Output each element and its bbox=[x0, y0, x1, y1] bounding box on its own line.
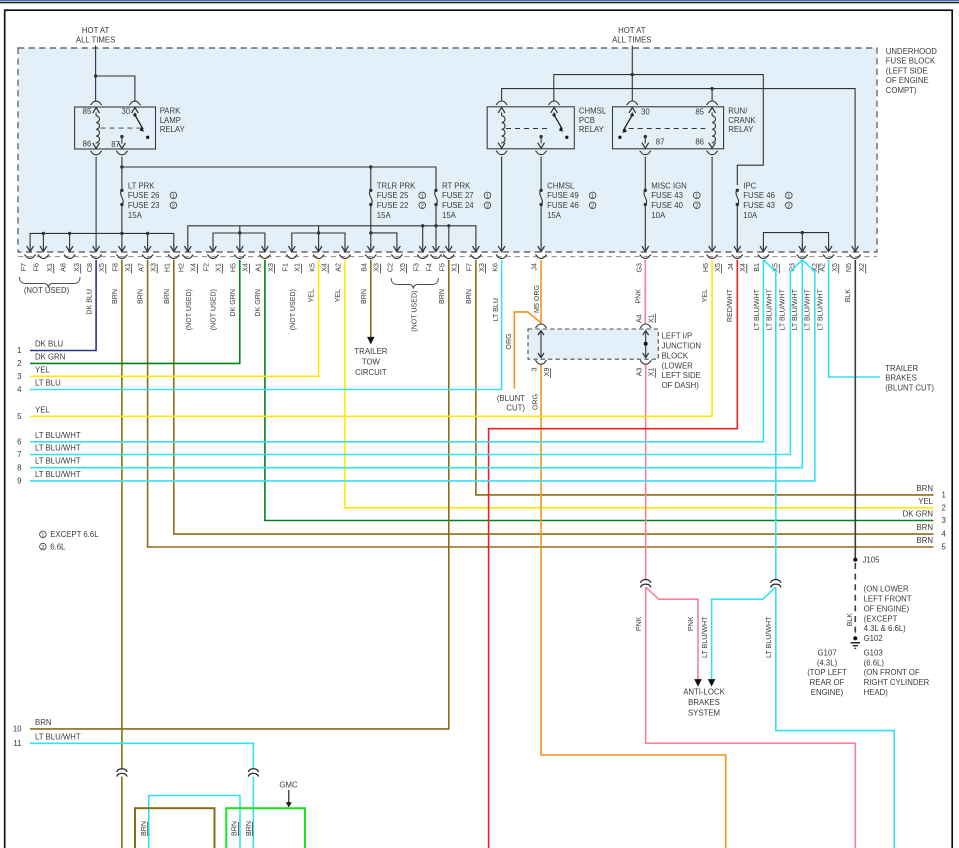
svg-text:1: 1 bbox=[787, 194, 790, 200]
wire: park relay 86 to pin C8 bbox=[95, 157, 97, 246]
svg-text:HOT AT: HOT AT bbox=[82, 26, 110, 35]
wire BRN A7 to circuit 5 right bbox=[148, 260, 934, 547]
fuse block output pin sockets bbox=[24, 255, 860, 259]
svg-text:YEL: YEL bbox=[701, 289, 709, 302]
svg-text:TRAILER: TRAILER bbox=[885, 364, 918, 373]
svg-text:X4: X4 bbox=[739, 263, 747, 272]
svg-text:1: 1 bbox=[41, 533, 44, 539]
svg-text:BLK: BLK bbox=[844, 289, 852, 303]
svg-text:LEFT I/P: LEFT I/P bbox=[662, 332, 693, 341]
svg-text:PNK: PNK bbox=[687, 616, 695, 631]
wire: left hot feed down to park lamp relay bbox=[95, 46, 97, 102]
underhood fuse block boundary bbox=[18, 48, 877, 252]
svg-text:DK GRN: DK GRN bbox=[254, 289, 262, 317]
fuse IPC (FUSE 46/FUSE 43 10A) bbox=[736, 181, 793, 220]
fuse CHMSL (FUSE 49/FUSE 46 15A) bbox=[539, 181, 596, 220]
svg-text:DK BLU: DK BLU bbox=[35, 340, 64, 349]
svg-text:N5: N5 bbox=[845, 263, 853, 272]
svg-text:5: 5 bbox=[942, 543, 947, 552]
label ANTI-LOCK BRAKES SYSTEM bbox=[683, 688, 725, 718]
svg-text:F7: F7 bbox=[20, 263, 28, 271]
note (ON LOWER LEFT FRONT OF ENGINE)(EXCEPT 4.3L & 6.6L) G102 bbox=[864, 585, 912, 644]
svg-text:X1: X1 bbox=[451, 263, 459, 272]
svg-text:4: 4 bbox=[17, 385, 22, 394]
svg-text:HOT AT: HOT AT bbox=[618, 26, 646, 35]
svg-text:8: 8 bbox=[17, 463, 21, 472]
junction dot bus 1 bbox=[146, 232, 149, 235]
svg-text:X4: X4 bbox=[321, 263, 329, 272]
wire YEL A2 to circuit 2 right bbox=[345, 260, 934, 508]
svg-text:2: 2 bbox=[41, 545, 44, 551]
svg-text:YEL: YEL bbox=[918, 497, 933, 506]
svg-text:2: 2 bbox=[172, 204, 175, 210]
wire: right hot feed down to run/crank relay pin 30 bbox=[631, 46, 633, 102]
wire DK BLU C8 to circuit 1 bbox=[30, 260, 96, 351]
svg-text:B1: B1 bbox=[753, 263, 761, 272]
svg-text:BRN: BRN bbox=[465, 289, 473, 304]
svg-text:86: 86 bbox=[695, 138, 704, 147]
svg-text:FUSE 23: FUSE 23 bbox=[128, 201, 160, 210]
svg-text:RT PRK: RT PRK bbox=[442, 181, 471, 190]
wire: minibus D drop P3 bbox=[801, 233, 803, 246]
svg-text:2: 2 bbox=[421, 204, 424, 210]
svg-text:BRAKES: BRAKES bbox=[688, 698, 720, 707]
svg-text:(TOP LEFT: (TOP LEFT bbox=[807, 668, 847, 677]
svg-text:FUSE 49: FUSE 49 bbox=[547, 191, 579, 200]
svg-text:BRN: BRN bbox=[360, 289, 368, 304]
label PARK LAMP RELAY bbox=[160, 107, 186, 135]
svg-text:A8: A8 bbox=[59, 263, 67, 272]
svg-text:(LEFT SIDE: (LEFT SIDE bbox=[886, 66, 928, 75]
wire BRN F7 to circuit 1 right bbox=[476, 260, 934, 495]
svg-text:A7: A7 bbox=[137, 263, 145, 272]
svg-text:BRN: BRN bbox=[438, 289, 446, 304]
svg-text:2: 2 bbox=[787, 204, 790, 210]
relay RUN/CRANK RELAY bbox=[613, 101, 724, 155]
junction dot in junction block bbox=[644, 342, 648, 346]
svg-text:RUN/: RUN/ bbox=[728, 107, 748, 116]
wire BLK N5 to J105 bbox=[854, 260, 856, 560]
svg-text:BRN: BRN bbox=[111, 289, 119, 304]
label (BLUNT CUT) bbox=[497, 394, 526, 412]
junction dot bus B to run/crank coil bbox=[710, 87, 713, 90]
svg-text:CHMSL: CHMSL bbox=[579, 107, 607, 116]
wire LT BLU K6 to circuit 4 left bbox=[30, 260, 502, 390]
svg-text:BRN: BRN bbox=[245, 821, 253, 836]
circuit numbers and labels right margin bbox=[903, 484, 947, 552]
junction dot bus 2 at F5 bbox=[447, 224, 450, 227]
junction dot bus 1 bbox=[42, 232, 45, 235]
svg-text:K6: K6 bbox=[491, 263, 499, 272]
svg-text:87: 87 bbox=[111, 140, 120, 149]
svg-text:X5: X5 bbox=[399, 263, 407, 272]
junction dot bus 2 at RT PRK bbox=[434, 224, 437, 227]
svg-text:F6: F6 bbox=[32, 263, 40, 271]
svg-text:J105: J105 bbox=[863, 556, 881, 565]
wire: feeder to TRLR PRK / RT PRK fuses bbox=[122, 167, 436, 190]
wire LT BLU/WHT B1 to circuit 6 left bbox=[30, 260, 763, 442]
svg-text:RIGHT CYLINDER: RIGHT CYLINDER bbox=[864, 678, 930, 687]
bus 2 (RT PRK distribution) bbox=[188, 226, 476, 246]
junction dot bus 1 bbox=[68, 232, 71, 235]
svg-text:X1: X1 bbox=[294, 263, 302, 272]
svg-text:C2: C2 bbox=[387, 263, 395, 272]
svg-text:BRAKES: BRAKES bbox=[885, 374, 917, 383]
svg-text:LT BLU/WHT: LT BLU/WHT bbox=[765, 616, 773, 658]
wire: park relay 87 to fuse feeder bbox=[121, 157, 123, 191]
svg-text:(ON FRONT OF: (ON FRONT OF bbox=[864, 668, 920, 677]
wire: TRLR PRK fuse drop bbox=[370, 167, 372, 190]
svg-text:X4: X4 bbox=[242, 263, 250, 272]
wire ORG below junction block to bottom right bbox=[541, 364, 726, 848]
svg-text:LEFT SIDE: LEFT SIDE bbox=[662, 371, 701, 380]
svg-text:X3: X3 bbox=[373, 263, 381, 272]
svg-text:DK GRN: DK GRN bbox=[903, 510, 933, 519]
svg-text:PARK: PARK bbox=[160, 107, 181, 116]
junction dot bus 2 at F3 bbox=[421, 224, 424, 227]
svg-text:YEL: YEL bbox=[334, 289, 342, 302]
svg-text:X5: X5 bbox=[98, 263, 106, 272]
svg-text:F3: F3 bbox=[412, 263, 420, 271]
svg-text:OF ENGINE): OF ENGINE) bbox=[864, 604, 910, 613]
wire LT BLU/WHT continues to bottom right bbox=[776, 587, 894, 848]
svg-text:MISC IGN: MISC IGN bbox=[651, 181, 687, 190]
svg-text:30: 30 bbox=[641, 108, 650, 117]
svg-text:BRN: BRN bbox=[917, 536, 933, 545]
svg-text:15A: 15A bbox=[128, 211, 143, 220]
svg-text:PCB: PCB bbox=[579, 116, 595, 125]
svg-text:30: 30 bbox=[122, 107, 131, 116]
svg-text:M5 ORG: M5 ORG bbox=[533, 285, 541, 313]
svg-text:BLOCK: BLOCK bbox=[662, 351, 689, 360]
svg-text:(NOT USED): (NOT USED) bbox=[185, 289, 193, 330]
wire: IPC fuse output to pin J4 (red) bbox=[736, 205, 738, 247]
label RUN/CRANK RELAY bbox=[728, 107, 756, 135]
svg-text:1: 1 bbox=[591, 194, 594, 200]
svg-text:X1: X1 bbox=[124, 263, 132, 272]
wire: RT PRK fuse output to bus 2 bbox=[435, 205, 437, 247]
svg-text:15A: 15A bbox=[442, 211, 457, 220]
svg-text:DK GRN: DK GRN bbox=[229, 289, 237, 317]
junction dot right hot feed bbox=[631, 73, 634, 76]
svg-text:(ON LOWER: (ON LOWER bbox=[864, 585, 909, 594]
wire BRN F5 to circuit 10 left bbox=[30, 260, 449, 729]
minibus D (B1/P3/A2) bbox=[763, 233, 828, 246]
wire: MISC IGN fuse output to pin G3 bbox=[644, 157, 646, 191]
svg-text:F2: F2 bbox=[202, 263, 210, 271]
svg-text:LT BLU/WHT: LT BLU/WHT bbox=[35, 431, 81, 440]
svg-text:OF ENGINE: OF ENGINE bbox=[886, 76, 929, 85]
fuse block output pin arrows bbox=[27, 245, 859, 252]
wire LT BLU/WHT P3 to circuit 8 left bbox=[30, 260, 802, 468]
svg-text:85: 85 bbox=[83, 107, 92, 116]
svg-text:X3: X3 bbox=[150, 263, 158, 272]
svg-text:BLK: BLK bbox=[846, 613, 854, 627]
svg-text:GMC: GMC bbox=[279, 780, 298, 789]
underhood fuse block caption bbox=[886, 47, 937, 95]
minibus A bbox=[213, 233, 265, 246]
wire: hot feed branch to park relay pin 30 bbox=[96, 76, 135, 101]
svg-text:F4: F4 bbox=[426, 263, 434, 271]
svg-text:J4: J4 bbox=[530, 263, 538, 271]
svg-text:(BLUNT CUT): (BLUNT CUT) bbox=[885, 383, 934, 392]
svg-text:86: 86 bbox=[83, 139, 92, 148]
svg-text:X2: X2 bbox=[858, 263, 866, 272]
svg-text:K5: K5 bbox=[308, 263, 316, 272]
svg-text:BRN: BRN bbox=[231, 821, 239, 836]
svg-text:G3: G3 bbox=[635, 263, 643, 273]
svg-text:X1: X1 bbox=[648, 367, 656, 376]
wire: bus 2 drop F3 bbox=[422, 226, 424, 246]
svg-text:(EXCEPT: (EXCEPT bbox=[864, 614, 898, 623]
connector box GMC (green) bbox=[226, 808, 305, 848]
label LEFT I/P JUNCTION BLOCK (LOWER LEFT SIDE OF DASH) bbox=[662, 332, 701, 391]
svg-text:YEL: YEL bbox=[35, 405, 50, 414]
arrow PNK to ABS bbox=[694, 679, 702, 687]
legend 1 EXCEPT 6.6L / 2 6.6L bbox=[40, 530, 100, 551]
svg-text:2: 2 bbox=[486, 204, 489, 210]
wire BRN F8 down to lower connector bbox=[121, 260, 123, 770]
wire: bus 2 drop to minibus A bbox=[239, 226, 241, 233]
svg-text:F8: F8 bbox=[112, 263, 120, 271]
wire YEL K5 to circuit 3 left bbox=[30, 260, 319, 377]
svg-text:87: 87 bbox=[656, 138, 665, 147]
svg-text:2: 2 bbox=[17, 359, 21, 368]
wire: TRLR PRK fuse output bbox=[370, 205, 372, 247]
note G103 (6.6L)(ON FRONT OF RIGHT CYLINDER HEAD) bbox=[864, 648, 930, 697]
arrow to trailer tow circuit bbox=[367, 337, 375, 345]
wire: CHMSL fuse output to pin J4 bbox=[540, 157, 542, 191]
svg-text:PNK: PNK bbox=[634, 289, 642, 304]
svg-text:(6.6L): (6.6L) bbox=[864, 658, 885, 667]
svg-text:CIRCUIT: CIRCUIT bbox=[355, 368, 387, 377]
svg-text:6: 6 bbox=[17, 437, 21, 446]
svg-text:9: 9 bbox=[17, 477, 21, 486]
wire: bus 2 drop F5 bbox=[448, 226, 450, 246]
note G107 (4.3L)(TOP LEFT REAR OF ENGINE) bbox=[807, 648, 847, 697]
wire: bus 1 drop bbox=[69, 233, 71, 246]
svg-text:G103: G103 bbox=[864, 648, 883, 657]
wire YEL H5 to circuit 5 left bbox=[30, 260, 712, 417]
wire BRN B4 to trailer tow circuit bbox=[370, 260, 372, 337]
svg-text:10A: 10A bbox=[743, 211, 758, 220]
svg-text:COMPT): COMPT) bbox=[886, 86, 917, 95]
wire LT BLU/WHT branch to anti-lock brakes bbox=[712, 587, 776, 679]
junction dot feeder at TRLR PRK bbox=[369, 165, 372, 168]
svg-text:11: 11 bbox=[13, 739, 21, 748]
wire: minibus B drop K5 bbox=[318, 233, 320, 246]
svg-text:LT BLU/WHT: LT BLU/WHT bbox=[35, 457, 81, 466]
svg-text:LT BLU/WHT: LT BLU/WHT bbox=[35, 444, 81, 453]
svg-text:BRN: BRN bbox=[917, 523, 933, 532]
svg-text:ORG: ORG bbox=[532, 394, 540, 410]
svg-text:X1: X1 bbox=[46, 263, 54, 272]
svg-text:PNK: PNK bbox=[635, 616, 643, 631]
wire: bus 1 drop bbox=[42, 233, 44, 246]
break in BRN wire bbox=[117, 769, 127, 772]
svg-text:TOW: TOW bbox=[362, 358, 381, 367]
svg-text:5: 5 bbox=[17, 412, 22, 421]
svg-text:6.6L: 6.6L bbox=[50, 542, 66, 551]
svg-text:LT BLU/WHT: LT BLU/WHT bbox=[701, 616, 709, 658]
wire ORG blunt-cut stub bbox=[514, 312, 541, 389]
connector box (brown) bbox=[135, 808, 215, 848]
svg-text:10: 10 bbox=[13, 725, 22, 734]
svg-text:FUSE 43: FUSE 43 bbox=[651, 191, 683, 200]
svg-text:FUSE 46: FUSE 46 bbox=[547, 201, 579, 210]
arrow LT BLU/WHT to ABS bbox=[708, 679, 716, 687]
bus 1 (LT PRK distribution) bbox=[30, 233, 174, 246]
svg-text:1: 1 bbox=[172, 194, 175, 200]
svg-text:C8: C8 bbox=[86, 263, 94, 272]
svg-text:X1: X1 bbox=[215, 263, 223, 272]
wire RED/WHT J4 to bottom left bbox=[489, 260, 738, 848]
svg-text:FUSE 26: FUSE 26 bbox=[128, 191, 160, 200]
wire: bus A to CHMSL relay switch and IPC fuse bbox=[554, 75, 764, 185]
wire PNK below junction to break bbox=[645, 364, 647, 580]
ground G102 bbox=[851, 636, 860, 648]
wire LT BLU/WHT bridge between connectors bbox=[149, 796, 240, 848]
fuse RT PRK (FUSE 27/FUSE 24 15A) bbox=[434, 181, 491, 220]
svg-text:RELAY: RELAY bbox=[160, 125, 186, 134]
svg-text:X4: X4 bbox=[190, 263, 198, 272]
wire BRN H1 to circuit 4 right bbox=[174, 260, 934, 534]
fuse LT PRK (FUSE 26/FUSE 23 15A) bbox=[120, 181, 176, 220]
svg-text:(NOT USED): (NOT USED) bbox=[24, 286, 70, 295]
svg-text:(BLUNT: (BLUNT bbox=[497, 394, 525, 403]
svg-text:A2: A2 bbox=[335, 263, 343, 272]
svg-text:LT BLU/WHT: LT BLU/WHT bbox=[778, 288, 786, 330]
svg-text:G107: G107 bbox=[817, 648, 836, 657]
svg-text:4.3L & 6.6L): 4.3L & 6.6L) bbox=[864, 624, 907, 633]
wire ORG J4 into junction block bbox=[540, 260, 542, 325]
svg-text:FUSE 22: FUSE 22 bbox=[377, 201, 409, 210]
svg-text:RED/WHT: RED/WHT bbox=[726, 288, 734, 322]
break in PNK wire bbox=[641, 580, 651, 583]
svg-text:7: 7 bbox=[17, 450, 21, 459]
svg-text:1: 1 bbox=[695, 194, 698, 200]
svg-text:(NOT USED): (NOT USED) bbox=[410, 291, 418, 332]
svg-text:10A: 10A bbox=[651, 211, 666, 220]
circuit numbers and labels left margin bbox=[13, 340, 81, 748]
wire: RUN/CRANK coil 86 to pin H5 bbox=[711, 157, 713, 246]
svg-text:CRANK: CRANK bbox=[728, 116, 756, 125]
svg-text:F1: F1 bbox=[282, 263, 290, 271]
svg-text:H2: H2 bbox=[178, 263, 186, 272]
svg-text:BRN: BRN bbox=[917, 484, 933, 493]
junction dot left hot feed bbox=[94, 74, 97, 77]
svg-text:HEAD): HEAD) bbox=[864, 688, 889, 697]
svg-text:X9: X9 bbox=[543, 367, 551, 376]
svg-text:A4: A4 bbox=[635, 314, 643, 323]
svg-text:DK BLU: DK BLU bbox=[85, 289, 93, 315]
svg-text:RELAY: RELAY bbox=[579, 125, 605, 134]
svg-text:X5: X5 bbox=[831, 263, 839, 272]
label GMC with arrow bbox=[279, 780, 298, 807]
svg-text:ALL TIMES: ALL TIMES bbox=[612, 35, 651, 44]
svg-text:FUSE BLOCK: FUSE BLOCK bbox=[886, 57, 936, 66]
svg-text:X1: X1 bbox=[648, 314, 656, 323]
svg-text:LT PRK: LT PRK bbox=[128, 181, 155, 190]
fuse TRLR PRK (FUSE 25/FUSE 22 15A) bbox=[369, 181, 426, 220]
junction dot minibus A bbox=[238, 231, 241, 234]
svg-text:LEFT FRONT: LEFT FRONT bbox=[864, 595, 912, 604]
svg-text:BRN: BRN bbox=[163, 289, 171, 304]
svg-text:CUT): CUT) bbox=[506, 403, 525, 412]
svg-text:IPC: IPC bbox=[743, 181, 756, 190]
wire DK GRN H5 to circuit 2 left bbox=[30, 260, 240, 364]
junction block pin labels top bbox=[635, 313, 655, 323]
svg-text:LT BLU/WHT: LT BLU/WHT bbox=[803, 288, 811, 330]
wire PNK branch to anti-lock brakes bbox=[646, 587, 698, 679]
wire DK GRN A1 to circuit 3 right bbox=[265, 260, 934, 521]
relay PARK LAMP RELAY bbox=[75, 101, 156, 155]
svg-text:LT BLU/WHT: LT BLU/WHT bbox=[35, 732, 81, 741]
brace (NOT USED) over C2/F3/F4 bbox=[391, 278, 438, 289]
svg-text:DK GRN: DK GRN bbox=[35, 352, 65, 361]
wire LT BLU/WHT A2 to trailer brakes bbox=[829, 260, 880, 377]
wire: bus 2 drop to minibus B bbox=[318, 226, 320, 233]
svg-text:3: 3 bbox=[17, 372, 21, 381]
junction dot bus 1 bbox=[120, 232, 123, 235]
break in LT BLU/WHT circuit 11 bbox=[248, 769, 258, 772]
wire PNK continues to bottom right bbox=[646, 587, 856, 848]
svg-text:F5: F5 bbox=[439, 263, 447, 271]
svg-text:85: 85 bbox=[695, 108, 704, 117]
junction dot at 87 feeder bbox=[120, 165, 123, 168]
svg-text:FUSE 27: FUSE 27 bbox=[442, 191, 474, 200]
svg-text:1: 1 bbox=[17, 346, 21, 355]
wire: CHMSL relay 86 to pin K6 bbox=[501, 157, 503, 246]
junction block pin labels bottom bbox=[531, 367, 656, 377]
svg-text:A2: A2 bbox=[818, 263, 826, 272]
splice J105 bbox=[853, 558, 857, 562]
svg-text:(NOT USED): (NOT USED) bbox=[210, 289, 218, 330]
svg-text:BRN: BRN bbox=[35, 718, 51, 727]
svg-text:15A: 15A bbox=[547, 211, 562, 220]
wire LT BLU/WHT continues into GMC box bbox=[252, 777, 254, 848]
wire: bus 1 drop bbox=[147, 233, 149, 246]
svg-text:YEL: YEL bbox=[35, 365, 50, 374]
svg-text:BRN: BRN bbox=[137, 289, 145, 304]
junction block pass-through M5/3 bbox=[535, 324, 546, 364]
svg-text:H1: H1 bbox=[164, 263, 172, 272]
svg-text:ALL TIMES: ALL TIMES bbox=[76, 35, 115, 44]
svg-text:FUSE 46: FUSE 46 bbox=[743, 191, 775, 200]
svg-text:X3: X3 bbox=[267, 263, 275, 272]
svg-text:EXCEPT 6.6L: EXCEPT 6.6L bbox=[50, 530, 99, 539]
svg-text:X3: X3 bbox=[73, 263, 81, 272]
fuse MISC IGN (FUSE 43/FUSE 40 10A) bbox=[644, 181, 701, 220]
svg-text:FUSE 43: FUSE 43 bbox=[743, 201, 775, 210]
svg-text:SYSTEM: SYSTEM bbox=[688, 708, 720, 717]
svg-text:X3: X3 bbox=[478, 263, 486, 272]
svg-text:X5: X5 bbox=[714, 263, 722, 272]
svg-text:FUSE 24: FUSE 24 bbox=[442, 201, 474, 210]
node HOT AT ALL TIMES (right) bbox=[612, 26, 651, 44]
left I/P junction block boundary bbox=[528, 329, 658, 359]
svg-text:(LOWER: (LOWER bbox=[662, 361, 694, 370]
svg-text:YEL: YEL bbox=[308, 289, 316, 302]
svg-text:UNDERHOOD: UNDERHOOD bbox=[886, 47, 937, 56]
svg-text:B4: B4 bbox=[361, 263, 369, 272]
wire BLK dashed to ground bbox=[854, 563, 856, 636]
svg-text:(4.3L): (4.3L) bbox=[817, 658, 838, 667]
svg-text:H5: H5 bbox=[702, 263, 710, 272]
wire PNK G3 into junction block bbox=[644, 260, 646, 325]
svg-text:ANTI-LOCK: ANTI-LOCK bbox=[683, 688, 725, 697]
svg-text:LT BLU/WHT: LT BLU/WHT bbox=[816, 288, 824, 330]
